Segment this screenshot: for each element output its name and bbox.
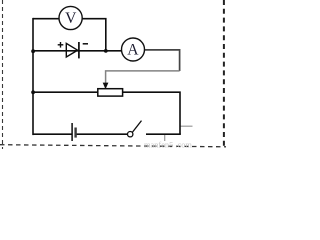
- svg-text:A: A: [127, 42, 139, 59]
- svg-text:manfen5 .com: manfen5 .com: [144, 141, 192, 149]
- svg-text:V: V: [65, 10, 77, 27]
